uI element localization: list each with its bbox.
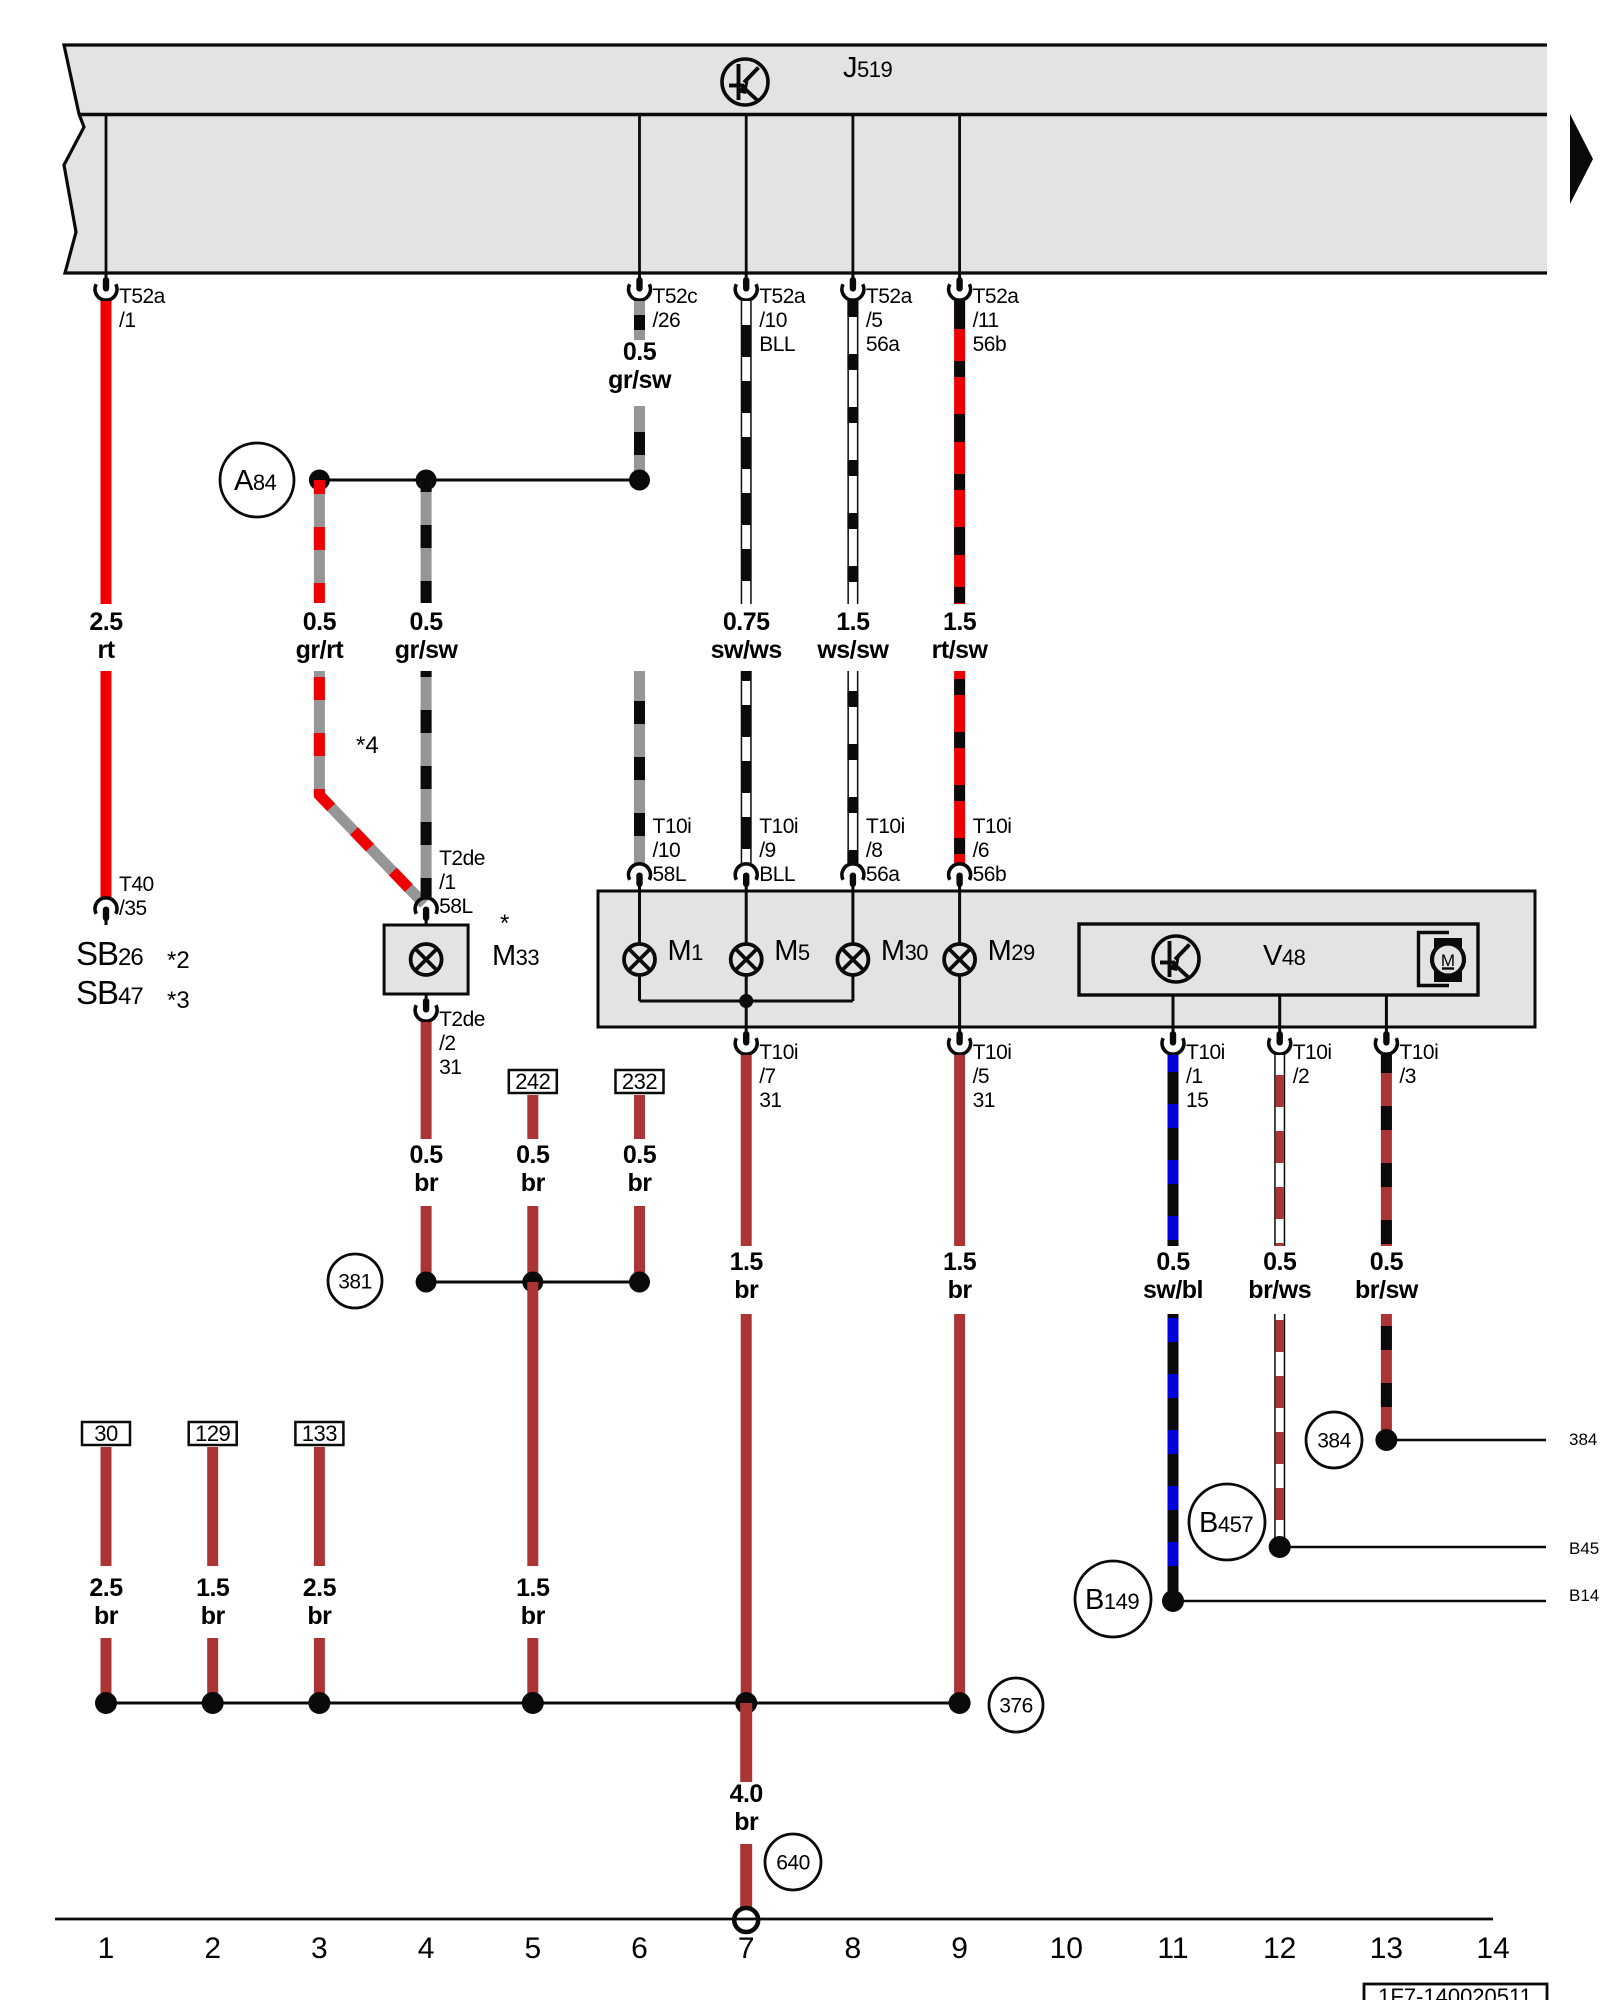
wire 2.5 br from box 133	[314, 1447, 325, 1566]
svg-text:T10i: T10i	[653, 815, 692, 838]
svg-text:0.5: 0.5	[1263, 1248, 1297, 1276]
ground rail 381	[426, 1281, 639, 1284]
wire 0.5 br from M33	[421, 1022, 432, 1139]
connector T10i/8	[851, 885, 854, 891]
node 376 rail x=959.6	[949, 1692, 971, 1714]
svg-text:2.5: 2.5	[303, 1574, 337, 1602]
lamp M1	[624, 944, 655, 975]
svg-text:/1: /1	[119, 309, 136, 332]
lamp M30	[837, 944, 868, 975]
svg-text:1.5: 1.5	[836, 608, 870, 636]
svg-text:*3: *3	[167, 987, 190, 1014]
terminal box 232	[616, 1070, 664, 1093]
svg-text:T10i: T10i	[866, 815, 905, 838]
internal wire M29	[958, 891, 961, 944]
connector T10i/10	[638, 885, 641, 891]
wire 0.5 br to node (col6)	[634, 1206, 645, 1282]
svg-text:56a: 56a	[866, 863, 900, 886]
svg-text:/6: /6	[973, 839, 990, 862]
svg-text:4: 4	[418, 1932, 435, 1965]
svg-text:T52a: T52a	[973, 285, 1020, 308]
connector T40/35	[105, 919, 108, 925]
svg-text:M29: M29	[988, 935, 1035, 967]
svg-text:58L: 58L	[653, 863, 687, 886]
svg-text:br: br	[734, 1276, 759, 1304]
svg-text:sw/ws: sw/ws	[711, 636, 782, 664]
connector T10i/3	[1385, 1027, 1388, 1033]
wire 0.5 sw/bl lower	[1168, 1314, 1179, 1601]
svg-text:0.5: 0.5	[623, 338, 657, 366]
svg-text:B457: B457	[1199, 1507, 1253, 1539]
svg-text:/10: /10	[653, 839, 681, 862]
svg-text:/2: /2	[439, 1032, 456, 1055]
wire 0.5 gr/sw lower (col4)	[421, 671, 432, 897]
svg-text:gr/sw: gr/sw	[395, 636, 459, 664]
svg-text:br: br	[734, 1808, 759, 1836]
svg-text:2.5: 2.5	[89, 1574, 123, 1602]
svg-text:T52a: T52a	[759, 285, 806, 308]
connector T2de/2	[425, 994, 428, 1000]
node 376 rail x=532.8	[522, 1692, 544, 1714]
svg-text:381: 381	[338, 1271, 372, 1294]
wire 1.5 br (col7) upper	[741, 1055, 752, 1246]
svg-text:gr/rt: gr/rt	[296, 636, 345, 664]
wire to edge B149	[1173, 1600, 1546, 1603]
motor V48 inner box	[1079, 924, 1478, 995]
lamp M5	[731, 944, 762, 975]
circle 376	[989, 1678, 1043, 1732]
bus internal wire at x=959.6	[958, 114, 961, 273]
svg-text:2: 2	[204, 1932, 221, 1965]
connector T52c/26	[638, 273, 641, 279]
svg-text:br: br	[521, 1169, 546, 1197]
svg-text:384: 384	[1569, 1430, 1597, 1449]
part number box	[1364, 1984, 1547, 2000]
junction rail to A84	[319, 479, 639, 482]
circle 640	[765, 1834, 821, 1890]
wire 0.5 gr/sw upper (col4)	[421, 480, 432, 603]
svg-text:T10i: T10i	[973, 1041, 1012, 1064]
svg-text:*2: *2	[167, 947, 190, 974]
wire 0.5 br from 232	[634, 1095, 645, 1139]
ground point symbol	[734, 1908, 758, 1932]
connector T52a/10	[745, 273, 748, 279]
wire 0.5 gr/sw to node	[634, 406, 645, 480]
node 376 rail x=319.4	[308, 1692, 330, 1714]
svg-text:31: 31	[973, 1089, 995, 1112]
svg-text:T52a: T52a	[119, 285, 166, 308]
wire 0.5 br from 242	[527, 1095, 538, 1139]
node 376 rail x=746.2	[735, 1692, 757, 1714]
svg-text:br: br	[201, 1602, 226, 1630]
svg-text:B149: B149	[1085, 1584, 1139, 1616]
node 381 middle	[522, 1272, 543, 1293]
svg-text:M33: M33	[492, 940, 539, 972]
svg-text:4.0: 4.0	[730, 1780, 763, 1808]
circle 384	[1306, 1412, 1362, 1468]
wire 0.5 br/sw lower	[1381, 1314, 1392, 1440]
bus internal wire at x=746.2	[745, 114, 748, 273]
svg-text:/7: /7	[759, 1065, 776, 1088]
wire 0.75 sw/ws (lower)	[741, 671, 752, 863]
wire 1.5 br (col9) upper	[954, 1055, 965, 1246]
svg-text:/11: /11	[973, 309, 999, 332]
node B149	[1162, 1590, 1184, 1612]
svg-text:1F7-140020511: 1F7-140020511	[1378, 1984, 1532, 2000]
svg-text:/35: /35	[119, 897, 147, 920]
wire 0.75 sw/ws (upper)	[741, 301, 752, 604]
lamp M29	[944, 944, 975, 975]
lamp unit box (M1 M5 M30 M29 V48)	[598, 891, 1535, 1027]
wire 1.5 br to rail (x212.7)	[207, 1638, 218, 1703]
terminal box 129	[189, 1422, 237, 1445]
node 381 left	[416, 1272, 437, 1293]
connector T10i/5	[958, 1027, 961, 1033]
svg-text:T10i: T10i	[973, 815, 1012, 838]
svg-text:/10: /10	[759, 309, 787, 332]
connector T10i/9	[745, 885, 748, 891]
wire 2.5 br to rail (x319.4)	[314, 1638, 325, 1703]
V48 output wires	[1172, 995, 1175, 1027]
circle 381	[328, 1254, 382, 1308]
svg-text:/2: /2	[1293, 1065, 1310, 1088]
terminal box 30	[82, 1422, 130, 1445]
svg-text:br: br	[628, 1169, 653, 1197]
svg-text:0.5: 0.5	[409, 1141, 443, 1169]
svg-text:/3: /3	[1399, 1065, 1416, 1088]
svg-text:232: 232	[622, 1069, 657, 1094]
connector T52a/1	[105, 273, 108, 279]
svg-text:7: 7	[738, 1932, 755, 1965]
svg-text:0.5: 0.5	[1156, 1248, 1190, 1276]
svg-text:T10i: T10i	[1293, 1041, 1332, 1064]
svg-text:1.5: 1.5	[943, 1248, 977, 1276]
connector T10i/6	[958, 885, 961, 891]
svg-text:12: 12	[1263, 1932, 1296, 1965]
svg-text:/1: /1	[1186, 1065, 1203, 1088]
svg-text:15: 15	[1186, 1089, 1208, 1112]
svg-text:T52c: T52c	[653, 285, 698, 308]
svg-text:br: br	[521, 1602, 546, 1630]
connector T10i/1	[1172, 1027, 1175, 1033]
internal wire M30	[851, 891, 854, 944]
svg-text:1.5: 1.5	[516, 1574, 550, 1602]
wire 1.5 br from 381 rail	[527, 1282, 538, 1566]
svg-text:SB47: SB47	[76, 974, 143, 1011]
wire 1.5 ws/sw (upper)	[847, 301, 858, 604]
svg-text:1: 1	[98, 1932, 115, 1965]
wire 1.5 rt/sw (lower)	[954, 671, 965, 863]
wire 0.5 br to node (col4)	[421, 1206, 432, 1282]
svg-text:0.5: 0.5	[303, 608, 337, 636]
svg-text:rt/sw: rt/sw	[932, 636, 989, 664]
svg-text:br: br	[307, 1602, 332, 1630]
wire 0.5 gr/rt lower with bend	[319, 671, 424, 904]
svg-text:SB26: SB26	[76, 935, 143, 972]
svg-text:/9: /9	[759, 839, 776, 862]
svg-text:9: 9	[951, 1932, 968, 1965]
svg-text:1.5: 1.5	[730, 1248, 764, 1276]
wire 1.5 ws/sw (lower)	[847, 671, 858, 863]
svg-text:1.5: 1.5	[943, 608, 977, 636]
wire to edge 384	[1386, 1439, 1546, 1442]
fog light M33 box	[384, 925, 468, 994]
svg-text:2.5: 2.5	[89, 608, 123, 636]
terminal box 133	[295, 1422, 343, 1445]
svg-text:30: 30	[94, 1421, 118, 1446]
svg-text:0.5: 0.5	[409, 608, 443, 636]
wire 0.5 gr/sw stub from T52c	[634, 301, 645, 340]
wire 4.0 br upper	[740, 1703, 752, 1782]
svg-text:ws/sw: ws/sw	[816, 636, 889, 664]
control unit J519 bus bar	[64, 45, 1547, 273]
svg-text:M1: M1	[668, 935, 704, 967]
node on A84 rail middle	[416, 470, 437, 491]
internal wire M5	[745, 891, 748, 944]
svg-text:M: M	[1441, 951, 1455, 970]
svg-text:/1: /1	[439, 871, 456, 894]
wire 1.5 rt/sw (upper)	[954, 301, 965, 604]
wire 1.5 br from box 129	[207, 1447, 218, 1566]
svg-text:rt: rt	[97, 636, 115, 664]
svg-text:133: 133	[302, 1421, 337, 1446]
node 376 rail x=106	[95, 1692, 117, 1714]
wire 0.5 br/sw upper	[1381, 1055, 1392, 1246]
circle B457	[1189, 1484, 1265, 1560]
svg-text:M5: M5	[774, 935, 810, 967]
svg-text:br: br	[414, 1169, 439, 1197]
svg-text:T10i: T10i	[1399, 1041, 1438, 1064]
svg-text:A84: A84	[234, 465, 277, 497]
control unit symbol in V48	[1153, 936, 1199, 982]
bus internal wire at x=639.5	[638, 114, 641, 273]
svg-text:58L: 58L	[439, 895, 473, 918]
wire 1.5 br to ground rail (col5)	[527, 1638, 538, 1703]
wire 0.5 br/ws lower	[1274, 1314, 1285, 1547]
svg-text:/8: /8	[866, 839, 883, 862]
node on A84 rail right	[629, 470, 650, 491]
svg-text:T10i: T10i	[759, 1041, 798, 1064]
control unit symbol inside J519	[722, 59, 768, 105]
internal junction	[739, 994, 753, 1008]
terminal box 242	[509, 1070, 557, 1093]
wire 1.5 br (col9) lower	[954, 1314, 965, 1703]
svg-text:56b: 56b	[973, 333, 1007, 356]
svg-text:640: 640	[776, 1852, 810, 1875]
node 376 rail x=212.7	[202, 1692, 224, 1714]
svg-text:br/sw: br/sw	[1355, 1276, 1419, 1304]
svg-text:br: br	[94, 1602, 119, 1630]
svg-text:T2de: T2de	[439, 847, 485, 870]
svg-text:/5: /5	[866, 309, 883, 332]
svg-text:129: 129	[195, 1421, 230, 1446]
continuation arrow right	[1570, 114, 1593, 204]
svg-text:T2de: T2de	[439, 1008, 485, 1031]
svg-text:/5: /5	[973, 1065, 990, 1088]
svg-text:0.5: 0.5	[516, 1141, 550, 1169]
bus internal wire at x=852.9	[852, 114, 855, 273]
svg-text:11: 11	[1157, 1932, 1188, 1965]
svg-text:gr/sw: gr/sw	[608, 366, 672, 394]
node B457	[1269, 1536, 1291, 1558]
svg-text:V48: V48	[1263, 940, 1306, 972]
svg-text:BLL: BLL	[759, 863, 795, 886]
svg-text:5: 5	[524, 1932, 541, 1965]
svg-text:BLL: BLL	[759, 333, 795, 356]
svg-text:B457: B457	[1569, 1539, 1600, 1558]
svg-text:J519: J519	[843, 52, 892, 84]
node on A84 rail left	[309, 470, 330, 491]
wire 2.5 rt lower segment	[101, 671, 112, 897]
connector T52a/5	[851, 273, 854, 279]
wire 0.5 gr/sw lower (col6)	[634, 671, 645, 863]
wire 2.5 br to rail (x106)	[101, 1638, 112, 1703]
svg-text:0.5: 0.5	[623, 1141, 657, 1169]
wire 0.5 sw/bl upper	[1168, 1055, 1179, 1246]
svg-text:10: 10	[1050, 1932, 1083, 1965]
svg-text:T40: T40	[119, 873, 154, 896]
svg-text:*: *	[500, 910, 509, 937]
svg-text:14: 14	[1476, 1932, 1509, 1965]
svg-text:br: br	[948, 1276, 973, 1304]
svg-text:31: 31	[439, 1056, 461, 1079]
svg-text:T10i: T10i	[759, 815, 798, 838]
circle B149	[1075, 1561, 1151, 1637]
wire 0.5 gr/rt upper	[314, 480, 325, 603]
svg-text:31: 31	[759, 1089, 781, 1112]
svg-text:6: 6	[631, 1932, 648, 1965]
wire 0.5 br/ws upper	[1274, 1055, 1285, 1246]
lamp symbol M33	[411, 944, 442, 975]
ground rail 376	[106, 1702, 960, 1705]
connector T10i/2	[1278, 1027, 1281, 1033]
bus internal wire at x=106	[105, 114, 108, 273]
motor symbol V48	[1419, 933, 1450, 986]
svg-text:T52a: T52a	[866, 285, 913, 308]
svg-text:M30: M30	[881, 935, 928, 967]
wire 1.5 br (col7) lower	[741, 1314, 752, 1703]
connector T2de/1	[425, 919, 428, 925]
svg-text:br/ws: br/ws	[1248, 1276, 1311, 1304]
svg-text:B149: B149	[1569, 1586, 1600, 1605]
svg-text:384: 384	[1317, 1430, 1351, 1453]
svg-text:3: 3	[311, 1932, 328, 1965]
connector T52a/11	[958, 273, 961, 279]
internal bus M1-M30	[640, 1000, 853, 1003]
internal wire M1	[638, 891, 641, 944]
node 384	[1375, 1429, 1397, 1451]
circle A84	[220, 443, 294, 517]
bottom frame line	[55, 1918, 1493, 1921]
wire 0.5 br to node (col5)	[527, 1206, 538, 1282]
svg-text:0.5: 0.5	[1370, 1248, 1404, 1276]
wire 2.5 br from box 30	[101, 1447, 112, 1566]
svg-text:sw/bl: sw/bl	[1143, 1276, 1203, 1304]
svg-text:13: 13	[1370, 1932, 1403, 1965]
svg-text:56a: 56a	[866, 333, 900, 356]
node 381 right	[629, 1272, 650, 1293]
svg-text:T10i: T10i	[1186, 1041, 1225, 1064]
svg-text:56b: 56b	[973, 863, 1007, 886]
svg-text:1.5: 1.5	[196, 1574, 230, 1602]
wire to edge B457	[1280, 1546, 1546, 1549]
wire 2.5 rt upper segment	[101, 301, 112, 604]
svg-text:242: 242	[515, 1069, 550, 1094]
svg-text:*4: *4	[356, 732, 379, 759]
svg-text:0.75: 0.75	[723, 608, 770, 636]
connector T10i/7	[745, 1027, 748, 1033]
svg-text:376: 376	[999, 1695, 1033, 1718]
wire 4.0 br lower	[740, 1844, 752, 1908]
svg-text:8: 8	[845, 1932, 862, 1965]
svg-text:/26: /26	[653, 309, 681, 332]
